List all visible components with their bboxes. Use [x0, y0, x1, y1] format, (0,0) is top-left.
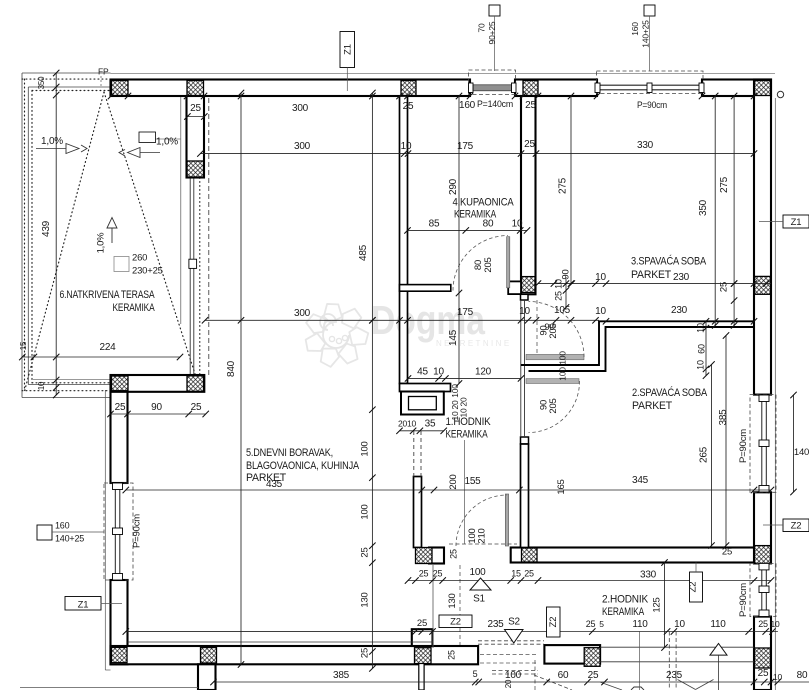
- svg-text:230+25: 230+25: [132, 266, 163, 277]
- svg-text:10: 10: [459, 408, 469, 418]
- svg-text:25: 25: [360, 547, 371, 557]
- svg-text:330: 330: [637, 140, 654, 151]
- dim line row12 hallway2: [412, 631, 778, 633]
- svg-text:PARKET: PARKET: [632, 400, 672, 412]
- svg-text:10: 10: [770, 619, 780, 629]
- terrace roof overhang dashed line: [208, 98, 210, 375]
- label Z2 box stair: [439, 615, 472, 628]
- window callout left box: [37, 525, 52, 540]
- svg-text:Z2: Z2: [791, 521, 802, 532]
- terrace glazing east edge: [189, 178, 191, 376]
- svg-text:345: 345: [632, 475, 649, 486]
- leader line from slope box: [156, 138, 182, 140]
- svg-text:S1: S1: [473, 594, 485, 605]
- wall hallway2 north: [511, 548, 754, 563]
- hatched wall pier 18: [584, 648, 600, 667]
- wall left exterior below window: [111, 580, 128, 664]
- svg-text:15: 15: [511, 569, 521, 579]
- svg-text:1,0%: 1,0%: [41, 136, 63, 147]
- wall stub below bottom wall: [198, 664, 216, 690]
- svg-text:90+25: 90+25: [487, 21, 497, 44]
- shaft dashed lines below: [413, 431, 415, 477]
- svg-text:BLAGOVAONICA, KUHINJA: BLAGOVAONICA, KUHINJA: [246, 460, 360, 472]
- svg-text:10: 10: [696, 360, 706, 370]
- wall face line above bottom wall: [128, 641, 434, 643]
- wall step bedroom divider inner line: [529, 327, 755, 371]
- svg-text:100: 100: [558, 367, 568, 381]
- svg-text:5: 5: [599, 619, 604, 629]
- svg-text:10: 10: [554, 279, 564, 289]
- window W2 top (160) dashed box: [597, 71, 704, 94]
- svg-text:25: 25: [449, 549, 459, 559]
- door entry swing arc: [456, 495, 507, 546]
- window right wall lower glazing: [761, 563, 763, 616]
- hatched wall pier 16: [416, 548, 433, 564]
- svg-text:S2: S2: [508, 617, 520, 628]
- terrace dotted outline inner: [32, 90, 111, 92]
- terrace small rect symbol: [114, 257, 129, 272]
- hatched wall pier 5: [755, 81, 771, 96]
- wall jamb hall east upper: [521, 294, 529, 300]
- hatched wall pier 1: [112, 81, 129, 96]
- wall pier at bathroom door: [508, 281, 521, 294]
- door bedroom3 threshold: [526, 354, 584, 359]
- wall left step at terrace: [111, 375, 205, 392]
- svg-text:100: 100: [469, 567, 486, 578]
- svg-text:5: 5: [473, 669, 478, 679]
- svg-text:25: 25: [433, 569, 443, 579]
- dim line row13 bottom: [214, 681, 809, 683]
- wall right exterior lower: [754, 617, 771, 690]
- door bathroom leaf: [507, 237, 510, 288]
- hatched wall pier 7: [755, 546, 771, 564]
- slope arrow right 1.0%: [139, 132, 156, 143]
- svg-text:25: 25: [588, 670, 599, 681]
- wall right exterior upper: [754, 80, 771, 395]
- svg-text:125: 125: [652, 597, 663, 612]
- hatched wall pier 13: [415, 648, 432, 664]
- svg-text:110: 110: [632, 619, 648, 630]
- svg-text:210: 210: [477, 528, 488, 543]
- svg-text:5.DNEVNI BORAVAK,: 5.DNEVNI BORAVAK,: [246, 447, 333, 459]
- svg-text:235: 235: [487, 619, 504, 630]
- svg-text:235: 235: [666, 670, 683, 681]
- svg-text:439: 439: [41, 220, 52, 237]
- svg-text:10: 10: [519, 306, 530, 317]
- window callout W1 box: [489, 5, 500, 16]
- svg-text:100: 100: [558, 351, 568, 365]
- svg-text:10: 10: [401, 141, 412, 152]
- svg-text:90: 90: [561, 269, 572, 279]
- stair tread dashed lines: [480, 654, 538, 656]
- corridor slab lines bottom right: [600, 646, 754, 648]
- svg-text:25: 25: [524, 569, 534, 579]
- wall jamb hall east lower: [521, 437, 529, 444]
- svg-text:25: 25: [722, 547, 732, 558]
- svg-text:KERAMIKA: KERAMIKA: [446, 429, 489, 441]
- door lower-right dashed jambs: [668, 632, 670, 690]
- door entry leaf: [505, 494, 508, 546]
- svg-text:200: 200: [448, 474, 459, 489]
- terrace outer boundary solid line: [22, 72, 111, 74]
- wall entry west pier: [414, 477, 422, 548]
- dim line V12a 385: [725, 336, 727, 546]
- svg-text:60: 60: [558, 670, 569, 681]
- svg-text:10: 10: [595, 306, 606, 317]
- svg-text:175: 175: [457, 307, 474, 318]
- dim line V10 350: [714, 96, 716, 325]
- svg-text:10: 10: [696, 323, 706, 333]
- wall bottom living room: [111, 646, 479, 664]
- svg-text:300: 300: [294, 141, 311, 152]
- window W1 sill: [471, 85, 514, 91]
- svg-text:KERAMIKA: KERAMIKA: [602, 606, 645, 618]
- svg-text:100: 100: [450, 384, 460, 398]
- svg-text:80: 80: [797, 670, 808, 681]
- dim line row7 shaft: [400, 430, 444, 432]
- svg-text:25: 25: [525, 100, 536, 111]
- wall kitchen-bath west thin: [400, 96, 408, 384]
- svg-text:Z1: Z1: [78, 600, 89, 611]
- terrace floor edge line: [33, 379, 110, 381]
- wall top exterior left segment: [111, 80, 471, 97]
- label Z1 right box: [783, 215, 809, 228]
- svg-text:140+25: 140+25: [641, 20, 651, 48]
- label Z1 top box: [340, 32, 355, 68]
- svg-text:Z1: Z1: [343, 44, 354, 55]
- svg-text:Z2: Z2: [450, 617, 461, 628]
- site boundary right: [774, 98, 776, 690]
- dim line living 435 upper: [126, 631, 422, 633]
- svg-text:385: 385: [718, 409, 729, 426]
- svg-text:P=90cm: P=90cm: [738, 429, 749, 463]
- svg-text:10: 10: [773, 672, 783, 682]
- wall step bedroom divider outer line: [521, 321, 754, 365]
- hatched wall pier 15: [522, 277, 536, 293]
- svg-text:85: 85: [429, 219, 440, 230]
- window left wall glazing: [114, 483, 116, 580]
- dim line V12b 265: [711, 365, 713, 546]
- svg-text:385: 385: [333, 670, 350, 681]
- window callout W2 box: [644, 5, 655, 16]
- svg-text:10: 10: [433, 367, 444, 378]
- marker S1 triangle: [470, 578, 491, 590]
- svg-text:145: 145: [448, 329, 459, 346]
- svg-text:205: 205: [548, 323, 559, 338]
- wall band above shaft: [400, 384, 451, 392]
- boundary line bottom left: [20, 686, 198, 688]
- svg-text:224: 224: [99, 342, 116, 353]
- svg-text:45: 45: [417, 367, 428, 378]
- svg-text:25: 25: [417, 618, 427, 629]
- door bedroom2 swing arc: [529, 381, 580, 433]
- dim line row9 terrace 224: [22, 356, 180, 358]
- door bedroom3 swing arc: [529, 302, 585, 358]
- wall top exterior middle segment: [515, 80, 597, 97]
- svg-text:130: 130: [447, 593, 458, 608]
- svg-text:Z1: Z1: [791, 217, 802, 228]
- dim line V16 140 window: [793, 395, 795, 492]
- dim line V15 10-25 column: [565, 277, 567, 308]
- watermark flower logo: [322, 302, 342, 323]
- svg-text:4.KUPAONICA: 4.KUPAONICA: [453, 197, 515, 209]
- svg-text:1,0%: 1,0%: [156, 137, 178, 148]
- svg-text:25: 25: [758, 668, 769, 679]
- svg-text:330: 330: [640, 570, 657, 581]
- svg-text:160: 160: [459, 100, 476, 111]
- hatched wall pier 10: [187, 376, 204, 392]
- window left wall (P=90) dashed box: [104, 483, 133, 580]
- svg-text:FP: FP: [98, 67, 109, 77]
- door bottom swing diagonal: [601, 682, 623, 690]
- wall above stair corner: [412, 629, 433, 646]
- dim line row6 closet: [408, 377, 521, 379]
- svg-text:160: 160: [55, 521, 70, 531]
- svg-text:205: 205: [548, 398, 559, 413]
- door lower-left dashed: [492, 670, 538, 672]
- label Z2 box vertical middle: [547, 607, 561, 637]
- label Z2 box vertical hallway: [690, 572, 703, 602]
- svg-text:300: 300: [292, 103, 309, 114]
- svg-text:275: 275: [719, 176, 730, 193]
- wall left exterior above window: [111, 392, 128, 483]
- svg-text:25: 25: [191, 402, 202, 413]
- svg-text:70: 70: [477, 23, 487, 33]
- svg-text:350: 350: [37, 76, 46, 89]
- dim line row2: [200, 153, 754, 155]
- dim line V11 275 right: [733, 96, 735, 325]
- dim line row11 entry: [408, 580, 771, 582]
- svg-text:160: 160: [630, 22, 640, 36]
- svg-text:435: 435: [266, 479, 283, 490]
- hatched wall pier 12: [201, 648, 217, 664]
- svg-text:485: 485: [358, 244, 369, 261]
- window W2 glazing: [597, 84, 702, 86]
- svg-text:25: 25: [524, 139, 535, 150]
- window right wall upper dashed box: [750, 395, 776, 493]
- wall thin stub below stair corner: [419, 664, 424, 690]
- svg-text:1,0%: 1,0%: [96, 232, 107, 254]
- door bedroom2 threshold: [526, 379, 579, 384]
- svg-text:P=140cm: P=140cm: [477, 99, 513, 110]
- dim line row10: [126, 489, 771, 491]
- dim line row8 left step: [111, 413, 206, 415]
- svg-text:20: 20: [504, 679, 513, 688]
- svg-text:120: 120: [475, 367, 492, 378]
- svg-text:Z2: Z2: [688, 582, 699, 593]
- svg-text:P=90cm: P=90cm: [738, 583, 749, 617]
- svg-text:80: 80: [483, 219, 494, 230]
- wall bathroom east: [521, 96, 536, 294]
- svg-text:10: 10: [674, 619, 685, 630]
- svg-text:230: 230: [671, 305, 688, 316]
- hatched wall pier 3: [401, 81, 416, 96]
- svg-text:2.HODNIK: 2.HODNIK: [602, 594, 649, 606]
- wall hallway2 south segment: [544, 645, 600, 664]
- dim line V13 125: [664, 563, 666, 648]
- svg-text:2.SPAVAĆA SOBA: 2.SPAVAĆA SOBA: [632, 386, 708, 399]
- roof overhang line above top wall: [111, 72, 776, 74]
- hatched wall pier 8: [755, 648, 771, 668]
- svg-text:2010: 2010: [398, 419, 417, 429]
- svg-text:290: 290: [448, 178, 459, 195]
- svg-text:25: 25: [758, 619, 768, 629]
- svg-text:25: 25: [586, 619, 596, 629]
- svg-text:35: 35: [425, 419, 436, 430]
- svg-text:3.SPAVAĆA SOBA: 3.SPAVAĆA SOBA: [631, 255, 707, 268]
- svg-text:110: 110: [710, 619, 726, 630]
- terrace slope arrow up: [111, 228, 113, 243]
- dim line row3 bedroom3: [538, 283, 771, 285]
- svg-text:140+25: 140+25: [55, 534, 84, 544]
- svg-text:140: 140: [794, 447, 809, 458]
- svg-text:90: 90: [151, 402, 162, 413]
- svg-text:60: 60: [697, 344, 707, 354]
- wall hall east thin face lines: [520, 300, 522, 437]
- terrace dotted line east: [199, 178, 201, 376]
- hatched wall pier 9: [112, 376, 129, 391]
- svg-text:25: 25: [190, 103, 201, 114]
- terrace roof-slope dotted diagonal left: [24, 92, 104, 393]
- svg-text:175: 175: [457, 141, 474, 152]
- svg-text:265: 265: [699, 446, 710, 463]
- hatched wall pier 2: [187, 81, 204, 96]
- svg-text:205: 205: [483, 257, 494, 272]
- svg-text:25: 25: [115, 402, 126, 413]
- wall interior column below top wall: [187, 96, 205, 178]
- dashed door leaf line bedroom3: [536, 300, 538, 357]
- hatched wall pier 4: [523, 81, 538, 96]
- dim ticks on top wall face: [108, 93, 757, 99]
- svg-text:25: 25: [447, 650, 457, 660]
- svg-text:100: 100: [360, 504, 371, 519]
- svg-text:100: 100: [505, 670, 522, 681]
- svg-text:165: 165: [556, 479, 567, 494]
- svg-text:840: 840: [226, 360, 237, 377]
- wall hall east lower segment: [521, 444, 529, 548]
- wall top exterior right segment: [702, 80, 771, 97]
- svg-text:KERAMIKA: KERAMIKA: [113, 302, 156, 314]
- rain pipe circle: [777, 91, 783, 97]
- svg-text:25: 25: [419, 569, 429, 579]
- stair shaft west line: [432, 565, 434, 648]
- door stair dashed opening: [478, 640, 544, 642]
- dim line V14 60 column: [705, 321, 707, 375]
- svg-text:230: 230: [673, 272, 690, 283]
- label Z1 left box: [65, 597, 101, 611]
- dim line V2 840: [240, 93, 242, 665]
- svg-text:130: 130: [360, 592, 371, 607]
- dim line bathroom inner: [408, 229, 528, 231]
- svg-text:155: 155: [464, 476, 481, 487]
- svg-text:25: 25: [403, 101, 414, 112]
- label Z2 box right: [783, 519, 809, 532]
- dim line row4 middle: [205, 319, 599, 321]
- wall right exterior middle: [754, 492, 771, 563]
- svg-text:10: 10: [37, 381, 46, 390]
- svg-text:20: 20: [459, 397, 469, 407]
- door bathroom swing arc: [453, 236, 508, 291]
- svg-text:P=90cm: P=90cm: [132, 514, 143, 548]
- svg-text:P=90cm: P=90cm: [637, 100, 667, 111]
- hatched wall pier 11: [112, 647, 128, 662]
- terrace facade thin line: [180, 97, 182, 325]
- svg-text:275: 275: [558, 177, 569, 194]
- svg-text:25: 25: [360, 648, 371, 658]
- window right wall lower dashed box: [750, 563, 776, 616]
- svg-text:350: 350: [698, 199, 709, 216]
- svg-text:Z2: Z2: [548, 617, 559, 628]
- dim line V3 485 column: [371, 93, 373, 668]
- door bottom symbol trapezoid: [631, 687, 644, 690]
- shaft outer box: [401, 392, 444, 415]
- svg-text:105: 105: [554, 305, 571, 316]
- facade line left lower: [104, 390, 106, 670]
- window right wall upper glazing: [761, 395, 763, 492]
- svg-text:10: 10: [595, 272, 606, 283]
- hatched wall pier 14: [187, 161, 204, 177]
- svg-text:6.NATKRIVENA TERASA: 6.NATKRIVENA TERASA: [60, 289, 156, 301]
- svg-text:300: 300: [294, 308, 311, 319]
- dim line V1 terrace 439: [55, 73, 57, 395]
- window W1 top (70) dashed box: [469, 70, 516, 95]
- svg-text:25: 25: [719, 282, 730, 292]
- svg-text:10: 10: [512, 219, 523, 230]
- marker vent triangle: [710, 644, 727, 656]
- dim line V4 bathroom 290: [458, 96, 460, 384]
- hatched wall pier 6: [755, 276, 771, 294]
- door bottom V symbol: [678, 680, 696, 690]
- svg-text:PARKET: PARKET: [631, 269, 671, 281]
- terrace dotted outline outer: [22, 78, 111, 80]
- wall bathroom south thin: [400, 285, 451, 292]
- shaft inner duct: [409, 397, 437, 410]
- terrace roof-slope dotted diagonal right: [104, 92, 197, 380]
- svg-text:100: 100: [360, 441, 371, 456]
- hatched wall pier 17: [522, 548, 538, 562]
- dim line V5 275 bathroom: [570, 96, 572, 284]
- svg-text:260: 260: [132, 253, 147, 264]
- svg-text:25: 25: [554, 291, 564, 301]
- svg-text:15: 15: [19, 341, 28, 350]
- terrace inner solid line: [28, 86, 110, 88]
